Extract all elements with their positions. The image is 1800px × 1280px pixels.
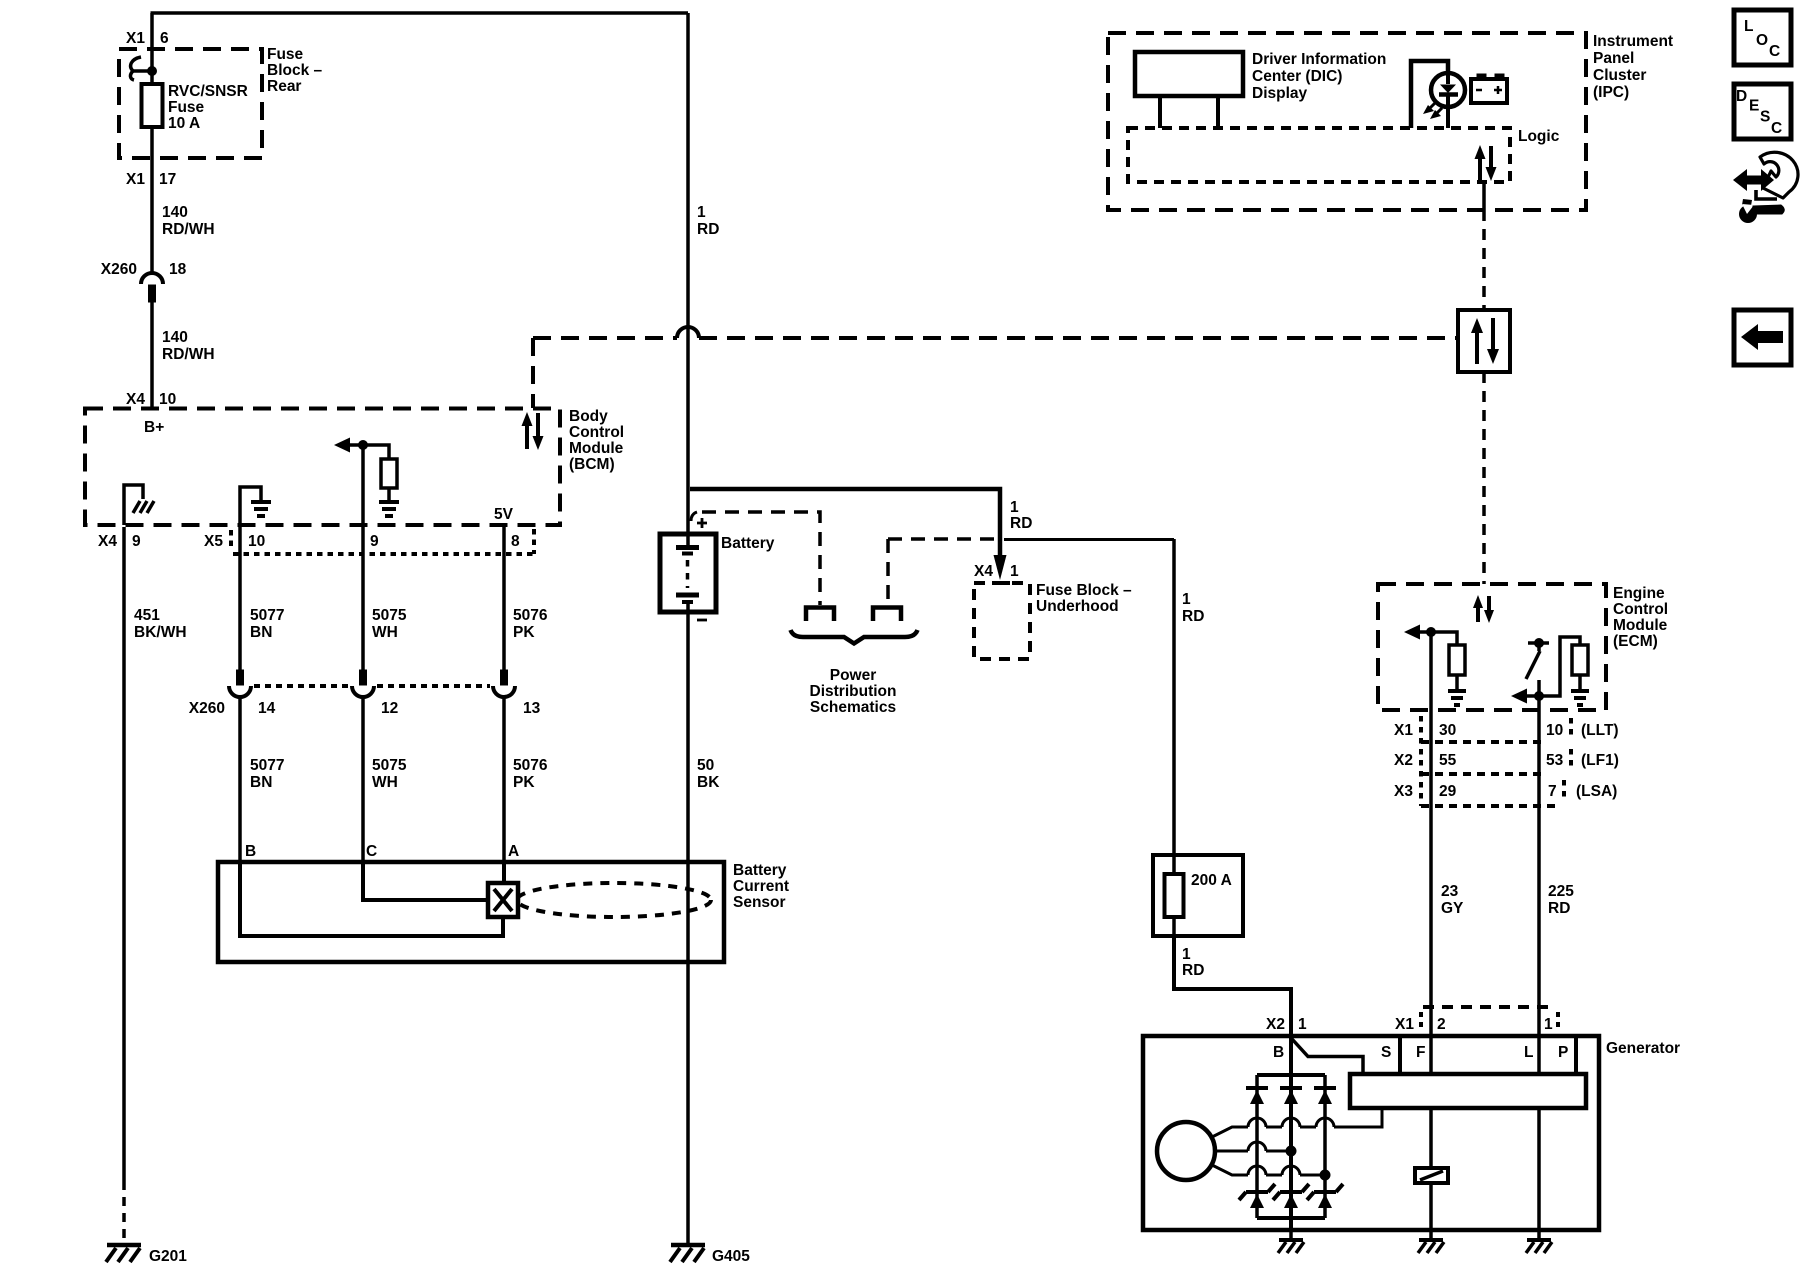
power distribution branch 2 dashed [873,539,996,621]
wire 140 RD/WH upper [150,127,154,273]
logic serial data arrows [1475,145,1497,181]
rectifier top rail [1257,1073,1325,1077]
wire dashed serial data horizontal [533,327,1458,408]
svg-text:Schematics: Schematics [810,699,896,716]
label Logic [1518,128,1560,145]
svg-text:Fuse: Fuse [267,46,304,63]
label B+ [144,419,164,436]
svg-text:Module: Module [1613,617,1668,634]
sensor internal wire A [502,862,506,883]
wire 5076 PK lower [502,697,506,862]
ground G201 [106,1245,187,1265]
svg-text:C: C [1771,120,1782,137]
svg-text:L: L [1744,18,1753,35]
svg-text:13: 13 [523,700,541,717]
ground generator F [1418,1240,1444,1253]
label 5077 BN lower [250,757,284,791]
wire 5075 WH upper [361,527,365,670]
ground generator L [1526,1240,1552,1253]
svg-text:Driver Information: Driver Information [1252,51,1386,68]
connector X260 pin 13 [493,670,515,697]
wire 225 RD [1537,680,1541,1036]
svg-text:7: 7 [1548,783,1557,800]
svg-text:RD: RD [1182,608,1204,625]
wire 140 RD/WH lower [150,302,154,409]
svg-text:Display: Display [1252,85,1308,102]
wire 1 RD right vertical [1172,539,1176,855]
label terminal P [1558,1044,1568,1061]
DIC display box [1135,52,1243,128]
svg-text:BN: BN [250,624,272,641]
sensor coil ellipse [517,883,711,917]
label 23 GY [1441,883,1464,917]
BCM ground pin X5-10 [240,487,271,525]
svg-text:55: 55 [1439,752,1457,769]
svg-text:X4: X4 [126,391,145,408]
svg-text:18: 18 [169,261,187,278]
svg-text:RVC/SNSR: RVC/SNSR [168,83,248,100]
svg-text:1: 1 [1182,591,1191,608]
svg-text:X3: X3 [1394,783,1413,800]
svg-text:50: 50 [697,757,714,774]
svg-text:GY: GY [1441,900,1464,917]
svg-text:5077: 5077 [250,757,284,774]
wire LED feed jog [1411,61,1448,128]
svg-text:Block –: Block – [267,62,323,79]
wire 5077 BN lower [238,697,242,862]
svg-text:X1: X1 [126,30,145,47]
label 5075 WH lower [372,757,407,791]
label ECM row X3 29 7 (LSA) [1394,783,1617,800]
svg-text:5075: 5075 [372,607,407,624]
svg-text:(IPC): (IPC) [1593,84,1629,101]
label X4 pin 10 [126,391,176,408]
BCM serial data arrows [522,412,544,450]
svg-text:30: 30 [1439,722,1456,739]
svg-text:Battery: Battery [733,862,787,879]
svg-text:Instrument: Instrument [1593,33,1673,50]
svg-text:12: 12 [381,700,398,717]
connector X1 generator dashed [1421,1007,1558,1031]
svg-text:Logic: Logic [1518,128,1560,145]
svg-text:10: 10 [159,391,176,408]
diode top 1 [1246,1088,1268,1104]
label 5V [494,506,514,523]
svg-text:Engine: Engine [1613,585,1665,602]
svg-text:200 A: 200 A [1191,872,1232,889]
battery minus sign [697,619,707,622]
svg-text:P: P [1558,1044,1568,1061]
diode top 3 [1314,1088,1336,1104]
wire 5075 WH lower [361,697,365,862]
IPC box [1108,33,1586,210]
stator phase lead top [1210,1108,1382,1138]
label Fuse Block - Underhood [1036,582,1132,615]
wire B to regulator [1292,1039,1363,1074]
label pin B [245,843,256,860]
logic box [1128,128,1510,182]
connector X5 row [204,529,534,554]
label X4 pin 1 underhood [974,563,1019,580]
label terminal L [1524,1044,1533,1061]
icon serial data wrench [1733,152,1798,222]
svg-text:X1: X1 [1394,722,1413,739]
connector X260 pin 14 [229,670,251,697]
svg-text:O: O [1756,32,1768,49]
svg-text:L: L [1524,1044,1533,1061]
svg-text:RD: RD [1548,900,1570,917]
BCM box [85,409,560,526]
wire F through generator [1429,1036,1433,1240]
battery current sensor box [218,862,724,962]
wire L through generator [1537,1036,1541,1240]
svg-text:Cluster: Cluster [1593,67,1646,84]
svg-text:B: B [1273,1044,1284,1061]
svg-text:PK: PK [513,774,535,791]
svg-text:Generator: Generator [1606,1040,1680,1057]
svg-text:X1: X1 [1395,1016,1414,1033]
svg-text:X260: X260 [101,261,137,278]
label Battery [721,535,775,552]
svg-text:5077: 5077 [250,607,284,624]
connector X260 pin 12 [352,670,374,697]
label 5075 WH upper [372,607,407,641]
label 1 RD right [1182,591,1204,625]
label 225 RD [1548,883,1574,917]
svg-text:BK: BK [697,774,720,791]
svg-text:10: 10 [1546,722,1563,739]
wire terminal S stub [1398,1036,1402,1074]
svg-text:A: A [508,843,519,860]
label X4 pin 9 [98,533,141,550]
svg-text:Distribution: Distribution [810,683,897,700]
svg-text:X1: X1 [126,171,145,188]
svg-text:BN: BN [250,774,272,791]
icon LOC box [1734,10,1791,65]
serial data connector box [1458,310,1510,372]
wire dashed IPC to connector [1482,210,1486,310]
svg-text:1: 1 [1544,1016,1553,1033]
svg-text:Panel: Panel [1593,50,1634,67]
label 1 RD top [697,204,719,238]
label 1 RD at branch [1010,499,1032,532]
label terminal F [1416,1044,1425,1061]
fuse block rear box [119,49,262,158]
LED emission arrows [1423,103,1442,119]
connector X260 link line [254,684,490,688]
diode top 2 [1280,1088,1302,1104]
label Power Distribution Schematics [810,667,897,716]
label Engine Control Module (ECM) [1613,585,1668,650]
wire dashed connector to ECM [1482,372,1486,584]
svg-text:(LSA): (LSA) [1576,783,1617,800]
wire 23 GY [1429,632,1433,1036]
battery positive branch dashed [691,512,834,621]
label 140 RD/WH upper [162,204,215,238]
svg-text:140: 140 [162,204,188,221]
label ECM row X1 30 10 (LLT) [1394,722,1619,739]
svg-text:RD: RD [1010,515,1032,532]
wire 1 RD main vertical [686,13,690,534]
label Instrument Panel Cluster (IPC) [1593,33,1673,101]
BCM pull-up resistor branch pin X5-9 [334,438,399,526]
svg-text:S: S [1381,1044,1391,1061]
battery telltale icon [1471,74,1507,103]
svg-text:RD/WH: RD/WH [162,346,215,363]
rectifier column 1 [1255,1075,1259,1218]
svg-text:1: 1 [697,204,706,221]
BCM chassis ground pin X4-9 [124,485,154,525]
label ECM row X2 55 53 (LF1) [1394,752,1619,769]
svg-text:5V: 5V [494,506,514,523]
wire logic to IPC edge [1482,182,1486,210]
svg-text:(ECM): (ECM) [1613,633,1658,650]
sensor internal wire B [240,862,503,936]
sensor internal wire C [363,862,488,900]
label Fuse Block - Rear [267,46,323,95]
svg-text:8: 8 [511,533,520,550]
svg-text:225: 225 [1548,883,1574,900]
fuse RVC/SNSR 10A [142,84,163,127]
label X2 pin 1 generator [1266,1016,1307,1033]
svg-text:X4: X4 [98,533,117,550]
label X260 18 [101,261,187,278]
regulator box [1350,1074,1586,1108]
fuse terminal curl [130,57,156,80]
label 5077 BN upper [250,607,284,641]
svg-text:G201: G201 [149,1248,187,1265]
label 1 RD below fuse [1182,946,1204,979]
stator phase lead middle [1215,1142,1296,1156]
svg-text:5076: 5076 [513,757,548,774]
battery plus sign [697,518,707,528]
svg-text:Control: Control [569,424,624,441]
svg-text:WH: WH [372,774,398,791]
generator box [1143,1036,1599,1230]
wire 5077 BN upper [238,527,242,670]
svg-text:53: 53 [1546,752,1564,769]
svg-text:X2: X2 [1394,752,1413,769]
label 50 BK [697,757,720,791]
svg-text:E: E [1749,98,1759,115]
zener diode bottom 3 [1307,1184,1343,1208]
wire fuse to generator [1174,936,1291,1036]
svg-text:1: 1 [1010,563,1019,580]
svg-text:Fuse: Fuse [168,99,205,116]
wire fuse underhood to right [1004,538,1174,541]
svg-text:Module: Module [569,440,624,457]
inline fuse generator box [1153,855,1243,936]
label 200 A [1191,872,1232,889]
label 451 BK/WH [134,607,187,641]
svg-text:6: 6 [160,30,169,47]
svg-text:Underhood: Underhood [1036,598,1119,615]
svg-text:RD: RD [1182,962,1204,979]
svg-text:2: 2 [1437,1016,1446,1033]
svg-text:17: 17 [159,171,176,188]
svg-text:D: D [1736,88,1747,105]
svg-text:C: C [1769,43,1780,60]
svg-text:(LLT): (LLT) [1581,722,1619,739]
svg-text:BK/WH: BK/WH [134,624,187,641]
label Driver Information Center (DIC) Display [1252,51,1386,102]
label RVC/SNSR Fuse 10 A [168,83,248,132]
svg-text:Center (DIC): Center (DIC) [1252,68,1342,85]
svg-text:B: B [245,843,256,860]
rectifier column 3 [1323,1075,1327,1218]
svg-text:C: C [366,843,377,860]
sensor hall element [488,883,518,917]
wire B column [1289,1036,1293,1230]
rectifier bottom rail [1257,1216,1325,1220]
svg-text:Sensor: Sensor [733,894,786,911]
svg-text:B+: B+ [144,419,164,436]
field winding symbol [1415,1168,1448,1183]
icon back arrow box [1734,310,1791,365]
label terminal S [1381,1044,1391,1061]
svg-text:Rear: Rear [267,78,301,95]
label pin C [366,843,377,860]
telltale LED [1431,73,1465,128]
icon DESC box [1734,84,1791,139]
battery [660,534,716,612]
svg-text:14: 14 [258,700,276,717]
svg-text:29: 29 [1439,783,1457,800]
svg-text:10 A: 10 A [168,115,200,132]
svg-text:X5: X5 [204,533,223,550]
svg-text:Power: Power [830,667,877,684]
label 5076 PK lower [513,757,548,791]
svg-text:5076: 5076 [513,607,548,624]
svg-text:X2: X2 [1266,1016,1285,1033]
label X1 pins 2 1 generator [1395,1016,1553,1033]
ground generator B [1278,1230,1304,1253]
svg-text:10: 10 [248,533,265,550]
svg-text:Body: Body [569,408,608,425]
fuse block underhood box [974,583,1030,659]
svg-text:(LF1): (LF1) [1581,752,1619,769]
label Battery Current Sensor [733,862,789,911]
svg-text:(BCM): (BCM) [569,456,615,473]
svg-text:1: 1 [1182,946,1191,963]
svg-text:1: 1 [1298,1016,1307,1033]
label X1 pin 17 [126,171,176,188]
wire 5076 PK upper [502,527,506,670]
label terminal B [1273,1044,1284,1061]
wire terminal P stub [1574,1036,1578,1074]
label X1 pin 6 [126,30,169,47]
ECM connector rows [1421,716,1571,806]
label 5076 PK upper [513,607,548,641]
wire branch to fuse block underhood [690,489,1007,580]
label pin A [508,843,519,860]
svg-text:5075: 5075 [372,757,407,774]
ECM left branch arrow and resistor [1404,625,1466,706]
zener diode bottom 2 [1273,1184,1309,1208]
svg-text:451: 451 [134,607,160,624]
svg-text:Battery: Battery [721,535,775,552]
svg-text:Current: Current [733,878,789,895]
ECM right branch switch [1526,639,1549,680]
stator phase lead bottom [1210,1164,1330,1180]
svg-text:X260: X260 [189,700,225,717]
svg-text:X4: X4 [974,563,993,580]
svg-text:F: F [1416,1044,1425,1061]
ECM serial data arrows [1473,595,1494,623]
svg-text:9: 9 [132,533,141,550]
svg-text:Control: Control [1613,601,1668,618]
svg-text:G405: G405 [712,1248,750,1265]
svg-text:S: S [1760,109,1770,126]
ECM right branch arrow resistor ground [1511,637,1589,705]
label Generator [1606,1040,1680,1057]
ECM box [1378,584,1606,710]
svg-text:140: 140 [162,329,188,346]
wire 50 BK [686,611,690,1245]
label Body Control Module (BCM) [569,408,624,473]
zener diode bottom 1 [1239,1184,1275,1208]
svg-text:23: 23 [1441,883,1459,900]
svg-text:WH: WH [372,624,398,641]
svg-text:Fuse Block –: Fuse Block – [1036,582,1132,599]
wire top feed [151,11,689,15]
ground G405 [670,1245,750,1265]
wire 451 BK/WH [122,527,126,1244]
svg-text:9: 9 [370,533,379,550]
svg-text:1: 1 [1010,499,1019,516]
connector X260 pin 18 [141,273,163,302]
svg-text:PK: PK [513,624,535,641]
wire X1-6 to fuse [150,13,154,84]
label X260 row [189,700,541,717]
power distribution brace [791,630,918,644]
label 140 RD/WH lower [162,329,215,363]
stator winding [1157,1122,1215,1180]
svg-text:RD/WH: RD/WH [162,221,215,238]
svg-text:RD: RD [697,221,719,238]
